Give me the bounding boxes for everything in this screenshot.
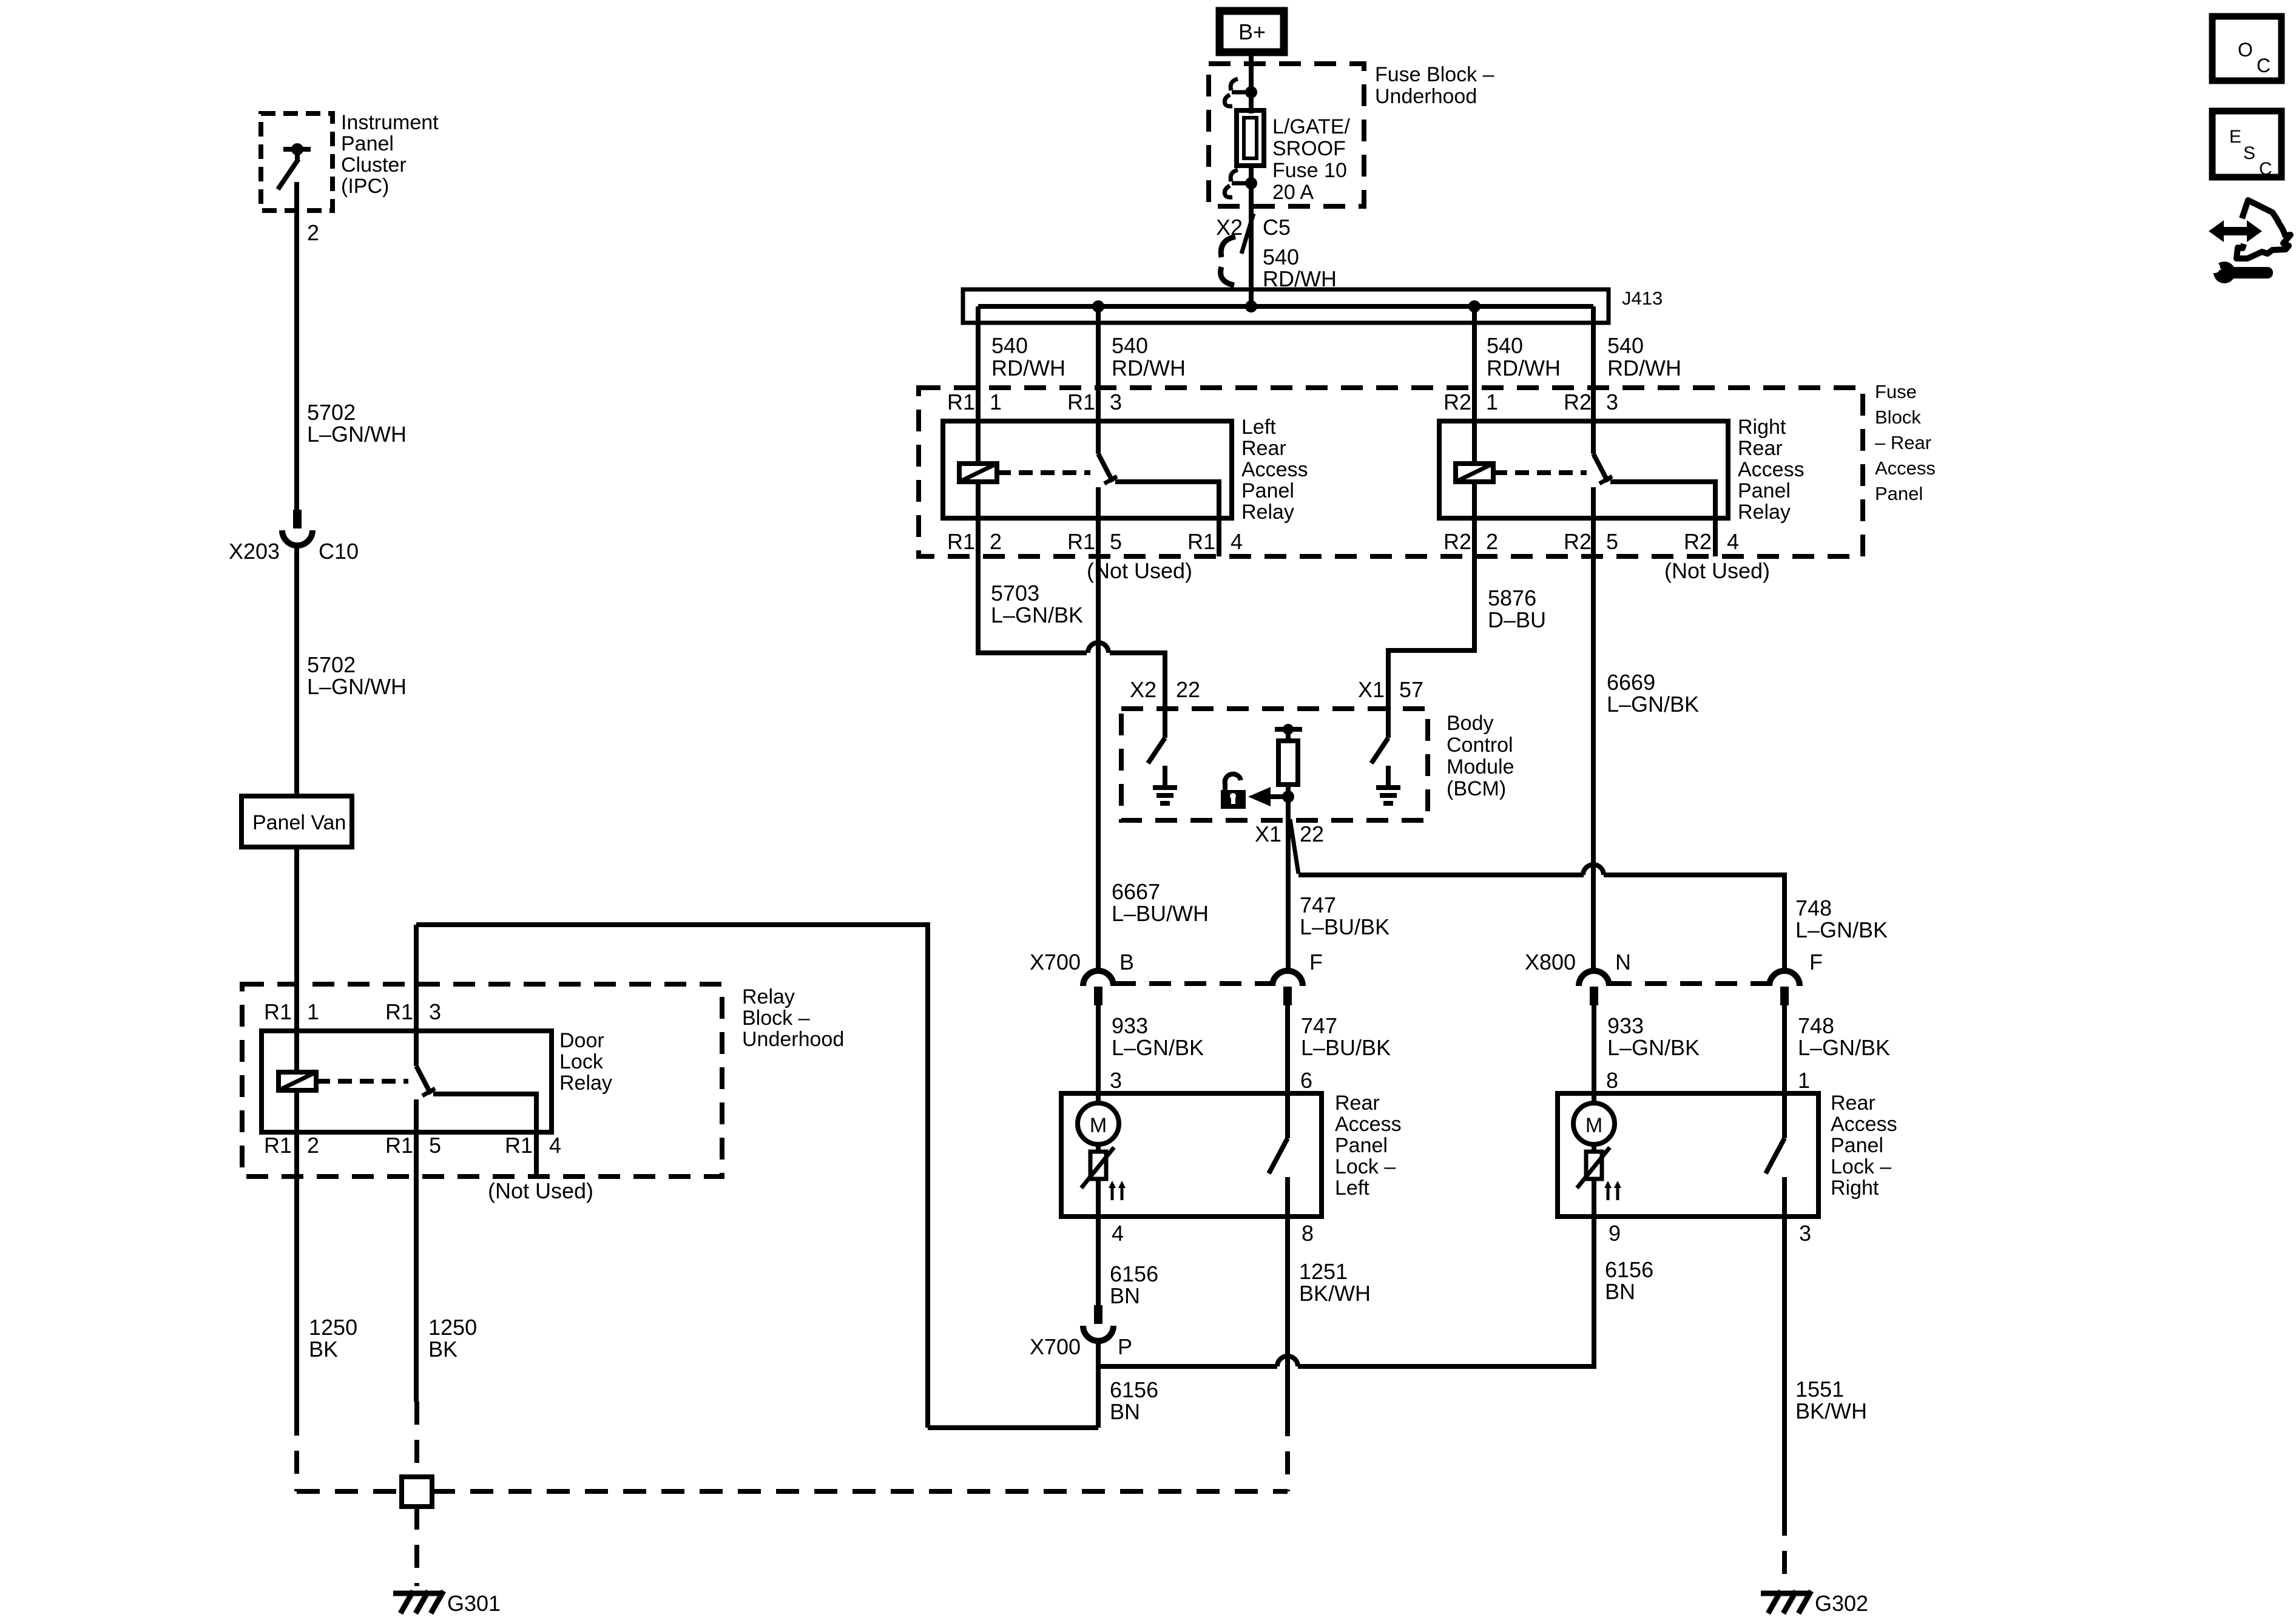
door lock relay switch stub (pin 5) (414, 1099, 419, 1132)
icon OC box (2212, 16, 2281, 81)
svg-text:Access: Access (1875, 457, 1936, 479)
svg-text:BK: BK (309, 1337, 338, 1362)
svg-text:5: 5 (1606, 529, 1618, 554)
svg-text:BN: BN (1110, 1399, 1140, 1424)
svg-text:Panel: Panel (1738, 479, 1791, 502)
svg-text:(Not Used): (Not Used) (1664, 558, 1770, 583)
svg-text:X2: X2 (1216, 215, 1243, 240)
ground G301 (393, 1591, 441, 1596)
svg-text:4: 4 (1112, 1221, 1124, 1246)
junction below X700-P (1096, 1341, 1101, 1428)
BCM right switch to ground (X1-57) (1386, 709, 1391, 738)
relay R1 switch stub (pin 5) (1096, 487, 1101, 518)
svg-text:Fuse Block –: Fuse Block – (1375, 63, 1494, 86)
wire 540 to R2-3 (1591, 306, 1596, 454)
svg-text:Panel: Panel (1875, 483, 1923, 504)
svg-text:Panel: Panel (1241, 479, 1294, 502)
svg-text:Right: Right (1738, 416, 1786, 439)
svg-text:P: P (1118, 1334, 1132, 1359)
svg-text:Rear: Rear (1335, 1092, 1380, 1115)
wire 747 L-BU/BK X700-F to lock switch (1285, 1005, 1290, 1138)
wire 5876 D-BU from R2-2 to BCM X1-57 (1388, 482, 1474, 709)
wire door lock relay R1-3 up to riser (414, 925, 419, 1066)
lock right switch (1766, 1138, 1784, 1173)
connector X800-N (1579, 971, 1609, 986)
svg-text:C: C (2259, 159, 2272, 179)
connector X800-F (1769, 971, 1800, 986)
svg-text:L–GN/BK: L–GN/BK (1798, 1035, 1890, 1060)
svg-text:SROOF: SROOF (1272, 137, 1346, 160)
wire 5702 L-GN/WH IPC to X203 (294, 182, 299, 510)
wire 6156 BN horizontal from door-lock-relay path (928, 1425, 1098, 1430)
svg-text:6669: 6669 (1607, 670, 1655, 695)
icon wrench (2213, 262, 2235, 283)
fuse block rear access panel dashed box (919, 388, 1863, 556)
svg-text:1: 1 (1486, 390, 1498, 414)
svg-text:R1: R1 (947, 529, 975, 554)
wire 5702 L-GN/WH X203 to Panel Van (294, 545, 299, 796)
svg-text:747: 747 (1300, 893, 1336, 917)
svg-text:BK/WH: BK/WH (1795, 1399, 1867, 1423)
svg-text:6156: 6156 (1605, 1257, 1653, 1282)
svg-text:540: 540 (1487, 333, 1523, 358)
BCM unlock arrow (1270, 794, 1288, 799)
svg-text:R1: R1 (947, 390, 975, 414)
rear access panel lock right box (1558, 1093, 1818, 1217)
lock left motor M (1078, 1103, 1119, 1144)
wire 5702 Panel Van to door lock relay (294, 847, 299, 1073)
BCM left switch to ground (X2-22) (1163, 709, 1167, 738)
svg-text:Underhood: Underhood (1375, 85, 1477, 108)
fuse top clip (1232, 90, 1251, 95)
lock left double arrows (1111, 1186, 1114, 1200)
svg-text:C: C (2257, 55, 2271, 76)
connector X203 C10 (293, 510, 302, 528)
svg-text:BK/WH: BK/WH (1299, 1281, 1371, 1306)
fuse bottom clip (1232, 181, 1251, 186)
svg-text:57: 57 (1399, 677, 1423, 702)
svg-text:Relay: Relay (742, 985, 795, 1008)
svg-text:748: 748 (1798, 1013, 1834, 1038)
svg-text:1: 1 (307, 999, 319, 1024)
relay R2 contact to pin R2-4 (1610, 482, 1715, 556)
svg-text:L–GN/WH: L–GN/WH (307, 422, 407, 447)
svg-text:1250: 1250 (309, 1315, 357, 1340)
IPC dashed box (261, 113, 333, 211)
svg-text:R2: R2 (1443, 390, 1471, 414)
svg-text:R1: R1 (1067, 529, 1095, 554)
svg-text:RD/WH: RD/WH (1487, 356, 1561, 380)
relay R1 switch blade (1098, 454, 1113, 482)
wire 5703 L-GN/BK from R1-2 to BCM X2-22 (978, 482, 1087, 653)
relay R2 (right rear access panel relay) box (1439, 421, 1728, 518)
svg-text:540: 540 (1112, 333, 1148, 358)
svg-text:1: 1 (1798, 1068, 1810, 1093)
junction dot J413 left (wire to R1-3) (1092, 300, 1104, 312)
svg-text:F: F (1809, 950, 1823, 974)
svg-text:B+: B+ (1238, 19, 1266, 44)
svg-text:Underhood: Underhood (742, 1028, 844, 1051)
svg-text:6667: 6667 (1112, 879, 1160, 904)
connector tick X1-22 (1290, 819, 1298, 874)
rear access panel lock left box (1061, 1093, 1322, 1217)
svg-text:X800: X800 (1525, 950, 1576, 974)
door lock relay box (262, 1031, 552, 1132)
svg-text:C10: C10 (319, 539, 359, 564)
wire 1250 BK from door lock relay R1-5 (414, 1132, 419, 1402)
wire 540 to R1-3 (1096, 306, 1101, 454)
svg-text:Lock –: Lock – (1335, 1155, 1396, 1178)
svg-text:Rear: Rear (1241, 437, 1286, 460)
svg-text:L–GN/BK: L–GN/BK (1607, 1035, 1700, 1060)
svg-text:F: F (1309, 950, 1323, 974)
wire 1551 BK/WH lock-right pin3 to G302 (1782, 1217, 1787, 1513)
ground G302 (1761, 1591, 1809, 1596)
svg-text:Access: Access (1241, 458, 1308, 481)
BCM unlock padlock icon (1225, 774, 1241, 791)
svg-text:N: N (1615, 950, 1631, 974)
connector X700-F (1272, 971, 1303, 986)
wire 540 to R1-1 (976, 306, 981, 464)
svg-text:Relay: Relay (1241, 501, 1294, 524)
svg-text:L–GN/WH: L–GN/WH (307, 674, 407, 699)
svg-text:R1: R1 (1067, 390, 1095, 414)
svg-text:M: M (1585, 1114, 1602, 1137)
svg-text:Rear: Rear (1738, 437, 1783, 460)
svg-text:R2: R2 (1443, 529, 1471, 554)
connector X2 C5 tick (1241, 214, 1254, 254)
svg-text:Panel: Panel (1831, 1134, 1883, 1157)
svg-text:2: 2 (307, 1133, 319, 1158)
door lock relay switch blade (416, 1066, 431, 1094)
lock right motor M (1573, 1103, 1615, 1144)
svg-text:8: 8 (1606, 1068, 1618, 1093)
door lock relay coil-switch dashed link (316, 1079, 408, 1084)
splice junction square (402, 1477, 432, 1507)
svg-text:E: E (2229, 127, 2241, 147)
svg-text:G301: G301 (447, 1591, 501, 1616)
svg-text:Door: Door (559, 1029, 604, 1052)
svg-text:C5: C5 (1263, 215, 1291, 240)
svg-text:Cluster: Cluster (341, 154, 407, 177)
svg-text:X1: X1 (1358, 677, 1385, 702)
wire 748 L-GN/BK X800-F to lock switch (1782, 1005, 1787, 1138)
svg-text:3: 3 (1110, 1068, 1122, 1093)
svg-text:L/GATE/: L/GATE/ (1272, 115, 1350, 138)
svg-text:Panel: Panel (341, 132, 394, 155)
svg-text:D–BU: D–BU (1488, 607, 1546, 632)
B+ battery terminal (1220, 11, 1284, 52)
svg-text:3: 3 (1606, 390, 1618, 414)
svg-text:RD/WH: RD/WH (1607, 356, 1681, 380)
svg-text:L–GN/BK: L–GN/BK (1112, 1035, 1204, 1060)
svg-text:– Rear: – Rear (1875, 432, 1931, 453)
svg-text:R2: R2 (1684, 529, 1712, 554)
svg-text:Relay: Relay (559, 1072, 612, 1095)
svg-text:X2: X2 (1130, 677, 1156, 702)
svg-text:22: 22 (1300, 822, 1324, 846)
svg-text:Relay: Relay (1738, 501, 1791, 524)
svg-text:Module: Module (1447, 755, 1514, 778)
svg-text:Control: Control (1447, 734, 1513, 757)
svg-text:5: 5 (1110, 529, 1122, 554)
svg-text:5702: 5702 (307, 400, 356, 425)
BCM dashed box (1121, 709, 1428, 820)
svg-text:540: 540 (1263, 245, 1299, 269)
svg-text:(BCM): (BCM) (1447, 777, 1506, 800)
dashed ground bus to 1251 wire (432, 1489, 1288, 1494)
lock left switch (1269, 1138, 1288, 1173)
junction dot J413 feed (wire from fuse) (1245, 300, 1257, 312)
wire 748 L-GN/BK branch to X800-F (1298, 873, 1584, 877)
svg-text:Lock: Lock (559, 1050, 604, 1073)
connector X800 dashed body N-F (1610, 981, 1769, 986)
svg-text:2: 2 (1486, 529, 1498, 554)
svg-text:R1: R1 (1187, 529, 1215, 554)
wire B+ to fuse (540 feed) (1249, 52, 1254, 113)
connector X700-P (1094, 1305, 1102, 1324)
relay R1 coil-switch dashed link (997, 470, 1090, 475)
svg-text:L–BU/BK: L–BU/BK (1300, 914, 1389, 939)
svg-text:22: 22 (1176, 677, 1200, 702)
wire riser from door lock relay R1-3 to rear junction (416, 925, 928, 1428)
svg-text:933: 933 (1607, 1013, 1644, 1038)
icon panel outline (2237, 200, 2291, 258)
svg-text:RD/WH: RD/WH (991, 356, 1065, 380)
svg-text:L–BU/BK: L–BU/BK (1301, 1035, 1391, 1060)
svg-text:Fuse: Fuse (1875, 381, 1917, 402)
wire 6156 BN lock-left pin4 to X700-P (1096, 1217, 1101, 1305)
svg-text:Left: Left (1241, 416, 1276, 439)
svg-text:6156: 6156 (1110, 1377, 1158, 1402)
svg-text:S: S (2243, 143, 2255, 163)
svg-text:L–GN/BK: L–GN/BK (991, 603, 1083, 627)
fuse block underhood dashed box (1209, 64, 1364, 206)
svg-text:X700: X700 (1030, 950, 1081, 974)
svg-text:6: 6 (1300, 1068, 1312, 1093)
wire fuse to J413 bus (1249, 168, 1254, 306)
splice pack J413 inner bus line (978, 304, 1593, 309)
fuse L/GATE/SROOF body (1237, 110, 1264, 166)
wire 933 L-GN/BK X800-N to lock motor (1592, 1005, 1596, 1103)
wire 933 L-GN/BK X700-B to lock motor (1096, 1005, 1101, 1103)
svg-text:R1: R1 (385, 999, 413, 1024)
svg-text:Block: Block (1875, 407, 1921, 428)
svg-text:748: 748 (1795, 896, 1832, 920)
svg-text:Block –: Block – (742, 1007, 810, 1030)
wire 6667 L-BU/WH from R1-5 to X700-B (1096, 487, 1101, 971)
door lock relay contact to pin R1-4 (433, 1094, 536, 1176)
svg-text:X700: X700 (1030, 1334, 1081, 1359)
svg-text:Body: Body (1447, 712, 1494, 735)
svg-text:540: 540 (1607, 333, 1644, 358)
svg-text:Rear: Rear (1831, 1092, 1876, 1115)
svg-text:20 A: 20 A (1272, 181, 1314, 204)
svg-text:R1: R1 (264, 999, 292, 1024)
svg-text:M: M (1090, 1114, 1107, 1137)
svg-text:(IPC): (IPC) (341, 175, 389, 198)
svg-text:6156: 6156 (1110, 1261, 1158, 1286)
relay R2 switch blade (1593, 454, 1608, 482)
relay R1 coil (959, 464, 997, 482)
relay block underhood dashed box (242, 984, 722, 1176)
svg-text:2: 2 (990, 529, 1002, 554)
svg-text:1: 1 (990, 390, 1002, 414)
junction dot J413 right (wire to R2-1) (1468, 300, 1481, 312)
svg-text:9: 9 (1609, 1221, 1621, 1246)
dashed wire square to G301 (414, 1507, 419, 1586)
svg-text:L–GN/BK: L–GN/BK (1795, 917, 1888, 942)
svg-text:4: 4 (549, 1133, 561, 1158)
svg-text:Access: Access (1335, 1113, 1402, 1136)
svg-text:1251: 1251 (1299, 1259, 1348, 1284)
lock right thermistor (1592, 1144, 1596, 1152)
svg-text:5: 5 (429, 1133, 441, 1158)
svg-text:Panel: Panel (1335, 1134, 1388, 1157)
svg-text:3: 3 (1110, 390, 1122, 414)
svg-text:L–BU/WH: L–BU/WH (1112, 901, 1209, 926)
BCM driver output: T-bar and resistor (1275, 727, 1302, 732)
svg-text:RD/WH: RD/WH (1112, 356, 1186, 380)
svg-text:Left: Left (1335, 1176, 1369, 1200)
svg-text:G302: G302 (1815, 1591, 1868, 1616)
svg-text:1551: 1551 (1795, 1377, 1844, 1402)
svg-text:BK: BK (428, 1337, 458, 1362)
svg-text:BN: BN (1110, 1283, 1140, 1308)
relay R1 contact to pin R1-4 (1115, 482, 1219, 556)
svg-text:5702: 5702 (307, 652, 356, 677)
svg-text:4: 4 (1727, 529, 1739, 554)
svg-text:R1: R1 (505, 1133, 533, 1158)
BCM junction dot to X1-22 (1282, 791, 1294, 803)
svg-text:(Not Used): (Not Used) (488, 1178, 593, 1203)
svg-text:8: 8 (1302, 1221, 1314, 1246)
svg-text:5703: 5703 (991, 581, 1039, 606)
relay R2 coil-switch dashed link (1493, 470, 1587, 475)
icon navigation arrow (2221, 227, 2249, 235)
svg-text:(Not Used): (Not Used) (1087, 558, 1192, 583)
svg-text:747: 747 (1301, 1013, 1337, 1038)
door lock relay coil (279, 1072, 316, 1090)
svg-text:540: 540 (991, 333, 1028, 358)
svg-text:Lock –: Lock – (1831, 1155, 1891, 1178)
option box Panel Van (241, 796, 352, 847)
svg-text:R1: R1 (264, 1133, 292, 1158)
connector X700-B (1083, 971, 1113, 986)
connector X700 dashed body B-F (1114, 981, 1272, 986)
wire 6156 BN horizontal to lock-right pin 9 (1098, 1364, 1277, 1369)
IPC switch (283, 147, 311, 152)
svg-text:BN: BN (1605, 1279, 1635, 1304)
lock right motor wire to pin 9 (1592, 1179, 1596, 1217)
svg-text:B: B (1119, 950, 1134, 974)
svg-text:5876: 5876 (1488, 586, 1536, 610)
svg-text:Panel Van: Panel Van (252, 811, 346, 834)
wire 1251 BK/WH lock-left pin8 down (1285, 1217, 1290, 1413)
splice pack J413 outer bar (963, 289, 1609, 323)
svg-text:J413: J413 (1622, 288, 1663, 309)
BCM output wire X1-22 (1286, 797, 1291, 971)
wire 1250 BK from door lock relay R1-2 (294, 1090, 299, 1413)
lock left thermistor (1096, 1144, 1101, 1152)
svg-text:4: 4 (1231, 529, 1243, 554)
relay R2 switch stub (pin 5) (1591, 487, 1596, 518)
svg-text:3: 3 (429, 999, 441, 1024)
svg-text:R2: R2 (1564, 529, 1592, 554)
wire 540 to R2-1 (1472, 306, 1477, 464)
lock right double arrows (1607, 1186, 1610, 1200)
svg-text:3: 3 (1799, 1221, 1811, 1246)
svg-text:X1: X1 (1255, 822, 1281, 846)
svg-text:Instrument: Instrument (341, 111, 439, 134)
svg-text:X203: X203 (229, 539, 280, 564)
svg-text:Right: Right (1831, 1176, 1879, 1200)
svg-text:933: 933 (1112, 1013, 1148, 1038)
icon ESC box (2212, 111, 2281, 177)
svg-text:1250: 1250 (428, 1315, 477, 1340)
svg-text:O: O (2238, 39, 2253, 61)
svg-text:R2: R2 (1564, 390, 1592, 414)
svg-text:2: 2 (307, 220, 319, 245)
svg-text:Access: Access (1831, 1113, 1897, 1136)
svg-text:R1: R1 (385, 1133, 413, 1158)
svg-text:L–GN/BK: L–GN/BK (1607, 692, 1699, 717)
lock left motor wire to pin 4 (1096, 1179, 1101, 1217)
svg-text:Fuse 10: Fuse 10 (1272, 159, 1347, 182)
relay R1 (left rear access panel relay) box (943, 421, 1232, 518)
relay R2 coil (1456, 464, 1493, 482)
wire 6669 L-GN/BK from R2-5 to X800-N (1591, 487, 1596, 971)
svg-text:Access: Access (1738, 458, 1805, 481)
